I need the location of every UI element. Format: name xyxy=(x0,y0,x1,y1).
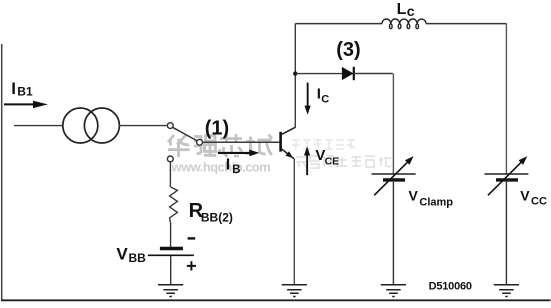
transistor Q base bar xyxy=(279,132,282,152)
wire from left to current source xyxy=(14,125,63,127)
switch blade xyxy=(173,127,198,141)
border left xyxy=(1,44,3,300)
battery VBB negative bar xyxy=(160,247,183,250)
watermark small line2 元器件在线商城 xyxy=(296,156,391,168)
svg-text:V: V xyxy=(520,188,530,204)
arrow IB1 xyxy=(4,101,48,108)
svg-text:B: B xyxy=(232,164,240,176)
watermark big text 华强芯城 (approx glyph strokes) xyxy=(168,134,272,157)
wire battery to ground xyxy=(170,256,172,285)
collector wire vertical xyxy=(294,24,296,128)
wire VClamp to ground xyxy=(392,182,394,285)
switch contact A xyxy=(167,123,173,129)
diode (3) triangle xyxy=(342,67,354,80)
svg-text:CC: CC xyxy=(531,195,547,207)
top wire right of inductor xyxy=(426,23,506,25)
svg-text:BB: BB xyxy=(129,251,147,265)
switch contact B (common) xyxy=(197,139,203,145)
wire diode to clamp corner xyxy=(354,73,393,75)
VCC source bottom plate xyxy=(496,178,518,181)
label IB xyxy=(226,157,241,176)
wire switch to base xyxy=(203,141,280,143)
junction node (collector/diode) xyxy=(293,71,297,75)
svg-text:BB(2): BB(2) xyxy=(201,211,233,225)
svg-text:L: L xyxy=(397,1,407,18)
svg-text:I: I xyxy=(226,157,230,174)
arrow IB xyxy=(218,150,259,157)
ground (VClamp) xyxy=(381,285,406,297)
top wire left of inductor xyxy=(295,23,382,25)
switch contact C xyxy=(167,156,173,162)
wire VCC to ground xyxy=(505,182,507,285)
VCC source top plate xyxy=(484,173,528,175)
resistor RBB(2) xyxy=(170,187,178,247)
svg-text:I: I xyxy=(11,79,16,98)
border bottom xyxy=(1,299,551,301)
label RBB(2) xyxy=(189,200,233,225)
svg-text:B1: B1 xyxy=(17,85,33,99)
华 xyxy=(168,135,190,157)
diode cathode bar xyxy=(353,67,355,80)
城 xyxy=(245,135,272,156)
minus sign xyxy=(188,237,196,239)
transistor emitter arrowhead xyxy=(286,151,293,158)
svg-text:V: V xyxy=(409,187,419,203)
svg-text:D510060: D510060 xyxy=(429,281,472,293)
label IB1 xyxy=(11,79,33,99)
watermark small line1 华强芯城旗下 xyxy=(292,140,355,149)
svg-text:Clamp: Clamp xyxy=(419,197,453,209)
VCC variability arrow xyxy=(488,162,522,196)
svg-text:V: V xyxy=(116,245,128,264)
current source IB1 (two circles) xyxy=(63,108,120,143)
VClamp source top plate xyxy=(372,173,416,175)
ground (VCC) xyxy=(494,285,519,297)
battery VBB positive bar xyxy=(148,254,194,256)
wire current source to switch xyxy=(119,125,167,127)
transistor emitter stroke xyxy=(281,149,294,159)
label VBB xyxy=(116,245,146,265)
ground (emitter) xyxy=(282,285,307,297)
wire junction to diode xyxy=(295,73,342,75)
arrow IC xyxy=(305,83,311,115)
label VCC xyxy=(520,188,547,208)
transistor collector stroke xyxy=(281,127,295,134)
label IC xyxy=(317,86,330,106)
ground (VBB) xyxy=(158,285,183,297)
inductor LC xyxy=(382,19,426,29)
svg-text:(1): (1) xyxy=(205,118,229,140)
VClamp source bottom plate xyxy=(383,178,405,181)
label VClamp xyxy=(409,187,454,208)
svg-text:c: c xyxy=(407,3,415,19)
label LC xyxy=(397,1,415,19)
wire switch C down to resistor xyxy=(169,162,171,187)
强 xyxy=(194,136,216,156)
wire corner down to VClamp xyxy=(392,74,394,175)
svg-text:CE: CE xyxy=(325,155,340,167)
svg-text:(3): (3) xyxy=(336,39,360,61)
wire right vertical to VCC xyxy=(505,24,507,174)
芯 xyxy=(218,134,242,157)
svg-text:.www.hqchip.com: .www.hqchip.com xyxy=(169,159,271,174)
label VCE xyxy=(315,147,339,167)
emitter wire vertical xyxy=(293,159,295,285)
VClamp variability arrow xyxy=(374,162,408,196)
arrow VCE xyxy=(304,146,310,175)
svg-text:C: C xyxy=(321,94,329,106)
plus sign xyxy=(187,261,196,270)
